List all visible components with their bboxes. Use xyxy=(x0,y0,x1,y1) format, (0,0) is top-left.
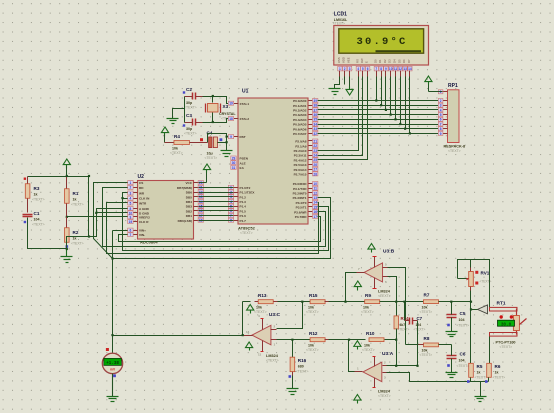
wire RT1 bottom to R6 xyxy=(489,337,491,364)
svg-text:10k: 10k xyxy=(256,306,262,310)
svg-text:<TEXT>: <TEXT> xyxy=(71,242,84,246)
svg-text:+1.38: +1.38 xyxy=(106,362,119,366)
resistor R7 xyxy=(424,300,439,304)
svg-text:D6: D6 xyxy=(402,59,406,63)
svg-text:<TEXT>: <TEXT> xyxy=(420,353,433,357)
svg-text:<TEXT>: <TEXT> xyxy=(361,310,374,314)
svg-text:11: 11 xyxy=(394,67,398,71)
resistor R5 xyxy=(469,363,474,377)
svg-text:U3:B: U3:B xyxy=(383,249,395,255)
svg-text:<TEXT>: <TEXT> xyxy=(170,151,183,155)
svg-text:R3: R3 xyxy=(34,186,40,191)
svg-text:R15: R15 xyxy=(309,293,318,298)
svg-text:DB3: DB3 xyxy=(186,205,192,209)
svg-text:5: 5 xyxy=(362,67,364,71)
svg-text:25: 25 xyxy=(313,158,317,162)
svg-text:PTC-PT100: PTC-PT100 xyxy=(496,341,516,345)
U3:A power stubs xyxy=(374,357,376,367)
svg-text:6: 6 xyxy=(367,67,369,71)
svg-text:<TEXT>: <TEXT> xyxy=(362,348,375,352)
svg-text:30: 30 xyxy=(232,161,236,165)
wire C3 net to XTAL2 xyxy=(203,119,234,123)
svg-text:RST: RST xyxy=(240,135,246,139)
svg-text:DB1: DB1 xyxy=(186,214,192,218)
svg-text:36: 36 xyxy=(313,113,317,117)
wire C7 right down to U3:A - input xyxy=(417,321,419,366)
resistor pack RP1 RESPACK-8 xyxy=(448,90,460,143)
svg-text:10k: 10k xyxy=(363,306,369,310)
ground (crystal) xyxy=(167,118,179,120)
svg-text:16: 16 xyxy=(199,209,203,213)
svg-text:C2: C2 xyxy=(186,87,192,92)
svg-text:<TEXT>: <TEXT> xyxy=(500,345,513,349)
potentiometer RV1 xyxy=(470,260,472,268)
svg-text:19: 19 xyxy=(129,220,133,224)
power terminal (U3:B V-) xyxy=(354,281,361,287)
wire P0 bus rows to RP1 xyxy=(318,100,443,102)
wire LCD RS to U1 P2.2 xyxy=(318,77,359,151)
svg-text:11: 11 xyxy=(258,353,262,357)
svg-text:14: 14 xyxy=(313,201,317,205)
svg-text:104: 104 xyxy=(416,323,422,327)
svg-text:32: 32 xyxy=(313,132,317,136)
svg-text:R1: R1 xyxy=(73,191,79,196)
wire analog net row to P3.3 xyxy=(113,198,331,259)
svg-text:22: 22 xyxy=(313,144,317,148)
resistor R1 xyxy=(66,177,68,189)
resistor R16 xyxy=(292,340,294,358)
svg-text:17: 17 xyxy=(313,215,317,219)
svg-text:LM324: LM324 xyxy=(378,290,391,294)
svg-text:1: 1 xyxy=(339,67,341,71)
svg-text:33: 33 xyxy=(313,127,317,131)
svg-text:P3.2/INT0: P3.2/INT0 xyxy=(293,192,307,196)
resistor R4 xyxy=(165,142,175,144)
capacitor C6 xyxy=(447,355,457,357)
svg-text:P2.4/A12: P2.4/A12 xyxy=(294,158,307,162)
svg-text:P0.1/AD1: P0.1/AD1 xyxy=(293,104,307,108)
svg-text:DB4: DB4 xyxy=(186,200,192,204)
svg-text:3: 3 xyxy=(349,67,351,71)
svg-text:R5: R5 xyxy=(477,364,483,369)
svg-text:LCD1: LCD1 xyxy=(334,12,347,18)
svg-text:DB6: DB6 xyxy=(186,191,192,195)
wire C4 right to RST net xyxy=(218,142,227,144)
voltmeter (DC) xyxy=(102,353,122,373)
svg-text:CRYSTAL: CRYSTAL xyxy=(219,112,236,116)
svg-text:2: 2 xyxy=(440,99,442,103)
wire U3:A output up to R10 row xyxy=(349,340,355,372)
svg-text:14: 14 xyxy=(408,67,412,71)
svg-text:2: 2 xyxy=(130,186,132,190)
svg-text:P3.1/TXD: P3.1/TXD xyxy=(293,187,307,191)
wire RV1 bottom down to R5 xyxy=(470,291,472,364)
svg-text:<TEXT>: <TEXT> xyxy=(457,324,470,328)
svg-text:18: 18 xyxy=(229,117,233,121)
svg-text:D1: D1 xyxy=(378,59,382,63)
wire VIN+ to analog net xyxy=(113,230,128,232)
svg-text:P1.2: P1.2 xyxy=(240,195,247,199)
svg-text:D0: D0 xyxy=(373,59,377,63)
svg-text:1: 1 xyxy=(130,181,132,185)
svg-text:R4: R4 xyxy=(174,134,180,139)
svg-text:VDD: VDD xyxy=(342,57,346,63)
svg-text:24: 24 xyxy=(313,154,317,158)
wire WR wrap to P3.5 xyxy=(123,193,329,251)
svg-text:U1: U1 xyxy=(242,89,249,95)
svg-text:P3.0/RXD: P3.0/RXD xyxy=(293,182,308,186)
U3:B stubs xyxy=(383,267,388,269)
svg-text:DB0(LSB): DB0(LSB) xyxy=(178,219,192,223)
svg-text:4: 4 xyxy=(130,197,132,201)
wire LCD data drops D0-D7 xyxy=(376,77,378,101)
svg-text:P1.4: P1.4 xyxy=(240,205,247,209)
svg-text:<TEXT>: <TEXT> xyxy=(205,156,218,160)
svg-text:R16: R16 xyxy=(298,358,307,363)
wire C2-C3 left leg xyxy=(184,97,186,123)
ground (sensor bottom) xyxy=(475,396,487,398)
svg-text:RS: RS xyxy=(355,59,359,63)
svg-text:6: 6 xyxy=(130,229,132,233)
svg-text:C1: C1 xyxy=(34,211,40,216)
wire row to R9 xyxy=(341,301,365,303)
svg-text:P0.3/AD3: P0.3/AD3 xyxy=(293,113,307,117)
U3:C power stubs xyxy=(262,319,264,330)
wire U3:B + input down to R8 row xyxy=(388,268,406,345)
svg-text:7: 7 xyxy=(440,122,442,126)
svg-text:ALE: ALE xyxy=(240,161,246,165)
svg-text:P2.5/A13: P2.5/A13 xyxy=(294,163,307,167)
svg-text:P0.0/AD0: P0.0/AD0 xyxy=(293,99,307,103)
svg-text:10u: 10u xyxy=(207,152,213,156)
svg-text:P2.1/A9: P2.1/A9 xyxy=(295,144,306,148)
wire RST net loop xyxy=(208,134,227,151)
ground (C6) xyxy=(451,359,453,373)
svg-text:27: 27 xyxy=(313,168,317,172)
svg-text:R12: R12 xyxy=(309,331,318,336)
wire R14 bottom to U3:A - input xyxy=(396,329,398,366)
ADC U2 ADC0804 xyxy=(138,181,194,240)
svg-text:12: 12 xyxy=(313,191,317,195)
svg-text:VSS: VSS xyxy=(337,57,341,63)
wire U2 data bus to U1 P1 (8 wires) xyxy=(199,187,234,189)
svg-text:P3.7/RD: P3.7/RD xyxy=(295,215,307,219)
ground (reset) xyxy=(221,150,233,152)
capacitor C2 xyxy=(192,93,194,100)
svg-text:P2.0/A8: P2.0/A8 xyxy=(295,140,306,144)
svg-text:37: 37 xyxy=(313,108,317,112)
svg-text:8: 8 xyxy=(130,207,132,211)
svg-text:29: 29 xyxy=(232,156,236,160)
resistor R3 xyxy=(27,177,29,184)
svg-text:<TEXT>: <TEXT> xyxy=(414,328,426,332)
resistor R8 xyxy=(424,343,439,347)
svg-text:1: 1 xyxy=(440,90,442,94)
svg-text:<TEXT>: <TEXT> xyxy=(398,328,410,332)
wire U3:A + input to bottom net xyxy=(387,373,489,382)
resistor R14 xyxy=(394,316,398,329)
wire C7 left up to row xyxy=(404,302,406,321)
svg-text:R7: R7 xyxy=(424,293,430,298)
svg-text:R13: R13 xyxy=(258,293,267,298)
wire C1 bottom to ground rail xyxy=(28,218,67,249)
wire R5/R6 bottoms to ground xyxy=(470,378,472,382)
svg-text:8: 8 xyxy=(380,67,382,71)
svg-text:13: 13 xyxy=(199,195,203,199)
power terminal (RP1) xyxy=(425,76,432,82)
svg-text:VREF/2: VREF/2 xyxy=(139,216,150,220)
svg-text:P1.0/T2: P1.0/T2 xyxy=(240,186,251,190)
svg-text:4k7: 4k7 xyxy=(400,323,406,327)
svg-text:104: 104 xyxy=(459,318,465,322)
ground (C5) xyxy=(451,318,453,332)
wire LCD RW to U1 P2.3 xyxy=(318,77,363,156)
svg-text:1k: 1k xyxy=(477,370,481,374)
power terminal (U3:C V-) xyxy=(246,342,253,348)
wire RV1 loop to RT1 top xyxy=(458,260,490,310)
op-amp U3:B LM324 xyxy=(364,263,382,282)
svg-text:12: 12 xyxy=(399,67,403,71)
svg-text:13: 13 xyxy=(403,67,407,71)
svg-text:<TEXT>: <TEXT> xyxy=(266,359,279,363)
svg-text:<TEXT>: <TEXT> xyxy=(475,376,488,380)
resistor R9 xyxy=(365,300,380,304)
svg-text:P2.2/A10: P2.2/A10 xyxy=(294,149,307,153)
svg-text:PSEN: PSEN xyxy=(240,157,249,161)
svg-text:11: 11 xyxy=(314,187,318,191)
svg-text:<TEXT>: <TEXT> xyxy=(457,364,470,368)
wire U3:A - input net xyxy=(387,365,418,367)
U3:C input/output stubs xyxy=(271,329,277,331)
svg-text:<TEXT>: <TEXT> xyxy=(184,106,197,110)
svg-text:P3.6/WR: P3.6/WR xyxy=(294,210,307,214)
svg-text:R2: R2 xyxy=(73,230,79,235)
wire amp output row to voltmeter net xyxy=(113,335,243,337)
svg-text:4: 4 xyxy=(440,108,442,112)
wire R8 to C6 xyxy=(439,344,452,346)
svg-text:2: 2 xyxy=(344,67,346,71)
svg-text:3: 3 xyxy=(130,191,132,195)
capacitor C3 xyxy=(192,119,194,126)
svg-text:39: 39 xyxy=(313,99,317,103)
resistor R13 xyxy=(243,301,251,303)
ground (left column) xyxy=(66,249,68,257)
svg-text:<TEXT>: <TEXT> xyxy=(420,310,433,314)
svg-text:P0.4/AD4: P0.4/AD4 xyxy=(293,118,307,122)
wire U3:C inverting input from R13/R15 junction xyxy=(277,302,303,329)
svg-text:P0.2/AD2: P0.2/AD2 xyxy=(293,109,307,113)
svg-text:D7: D7 xyxy=(407,59,411,63)
svg-text:9: 9 xyxy=(440,132,442,136)
svg-text:38: 38 xyxy=(313,104,317,108)
svg-text:RW: RW xyxy=(360,58,364,63)
svg-text:9: 9 xyxy=(385,67,387,71)
svg-text:R9: R9 xyxy=(365,293,371,298)
power terminal (U3:C V+) xyxy=(247,305,254,311)
svg-text:8: 8 xyxy=(440,127,442,131)
svg-text:<TEXT>: <TEXT> xyxy=(333,22,345,26)
svg-text:EA: EA xyxy=(240,166,245,170)
svg-text:31: 31 xyxy=(232,166,236,170)
svg-text:35: 35 xyxy=(313,118,317,122)
capacitor C5 xyxy=(447,314,457,316)
svg-text:D5: D5 xyxy=(397,59,401,63)
svg-text:R6: R6 xyxy=(495,364,501,369)
svg-text:<TEXT>: <TEXT> xyxy=(184,132,197,136)
svg-text:10: 10 xyxy=(313,182,317,186)
svg-text:CLK IN: CLK IN xyxy=(139,197,150,201)
wire top rail xyxy=(28,176,89,178)
svg-text:10k: 10k xyxy=(172,147,178,151)
svg-text:P2.3/A11: P2.3/A11 xyxy=(294,154,307,158)
svg-text:AT89C52: AT89C52 xyxy=(238,226,256,231)
wire row to R10 xyxy=(341,339,366,341)
svg-text:5: 5 xyxy=(130,201,132,205)
power terminal (U3:B V+) xyxy=(368,244,375,250)
svg-text:15: 15 xyxy=(313,205,317,209)
capacitor C1 xyxy=(23,214,33,216)
capacitor C7 xyxy=(409,318,411,325)
svg-text:C7: C7 xyxy=(417,316,423,321)
svg-text:<TEXT>: <TEXT> xyxy=(32,223,45,227)
svg-text:P1.6: P1.6 xyxy=(240,214,247,218)
svg-text:10k: 10k xyxy=(422,349,428,353)
power terminal (U3:A V-) xyxy=(354,395,361,401)
svg-text:<TEXT>: <TEXT> xyxy=(71,203,84,207)
svg-text:P0.5/AD5: P0.5/AD5 xyxy=(293,123,307,127)
svg-text:<TEXT>: <TEXT> xyxy=(378,294,391,298)
svg-text:P1.7: P1.7 xyxy=(240,219,247,223)
svg-text:3: 3 xyxy=(230,195,232,199)
wire U3:B - input down to R14 xyxy=(388,277,397,316)
ground (R16) xyxy=(287,388,299,390)
svg-text:CS: CS xyxy=(139,181,143,185)
wire crystal bottom to C3 net xyxy=(212,113,214,123)
svg-text:P1.1/T2EX: P1.1/T2EX xyxy=(240,191,256,195)
wire C2 net to XTAL1 xyxy=(203,97,234,104)
svg-text:VCC: VCC xyxy=(185,181,192,185)
svg-text:30.9°C: 30.9°C xyxy=(356,36,407,48)
svg-text:mV: mV xyxy=(110,368,116,372)
svg-text:9: 9 xyxy=(130,215,132,219)
svg-text:WR: WR xyxy=(139,192,145,196)
svg-text:D3: D3 xyxy=(388,59,392,63)
svg-text:<TEXT>: <TEXT> xyxy=(493,376,506,380)
svg-text:D4: D4 xyxy=(393,59,397,63)
ground (LCD VSS) xyxy=(335,77,340,89)
wire VREF/2 to divider xyxy=(67,216,128,218)
svg-text:10k: 10k xyxy=(308,344,314,348)
svg-text:U2: U2 xyxy=(138,174,145,180)
resistor R2 xyxy=(66,217,68,228)
svg-text:U3:A: U3:A xyxy=(382,351,394,357)
svg-text:28: 28 xyxy=(313,172,317,176)
wire C5 top to R7 row xyxy=(451,302,453,315)
svg-text:10k: 10k xyxy=(364,344,370,348)
svg-text:19: 19 xyxy=(229,102,233,106)
svg-text:RV1: RV1 xyxy=(481,271,490,276)
wire crystal top to C2 net xyxy=(212,97,214,103)
capacitor C4 (electrolytic) xyxy=(209,137,212,148)
resistor R10 xyxy=(369,338,384,342)
wire U3:C output to voltmeter net and feedback xyxy=(242,302,244,336)
svg-text:<TEXT>: <TEXT> xyxy=(306,348,319,352)
svg-text:P1.5: P1.5 xyxy=(240,209,247,213)
resistor R15 xyxy=(283,301,311,303)
svg-text:VIN-: VIN- xyxy=(139,233,145,237)
svg-text:7: 7 xyxy=(130,233,132,237)
svg-text:RP1: RP1 xyxy=(448,83,458,89)
svg-text:E: E xyxy=(365,61,369,63)
crystal X3 xyxy=(208,104,219,113)
wire analog net down to voltmeter xyxy=(112,231,114,353)
svg-text:104: 104 xyxy=(459,359,465,363)
power terminal (U2 VCC) xyxy=(203,164,210,170)
wire U3:B output down to row xyxy=(346,273,357,302)
svg-text:VIN+: VIN+ xyxy=(139,229,146,233)
svg-text:XTAL2: XTAL2 xyxy=(240,117,250,121)
power terminal VCC (top-left) xyxy=(63,159,70,165)
svg-text:10k: 10k xyxy=(308,306,314,310)
wire to ground stub xyxy=(173,109,185,119)
microcontroller U1 AT89C52 xyxy=(238,98,308,224)
svg-text:30.0: 30.0 xyxy=(501,322,512,327)
svg-text:P2.7/A15: P2.7/A15 xyxy=(294,173,307,177)
svg-text:10k: 10k xyxy=(422,306,428,310)
svg-text:<TEXT>: <TEXT> xyxy=(378,394,391,398)
svg-text:<TEXT>: <TEXT> xyxy=(254,310,267,314)
wire AGND/DGND to ground rail xyxy=(67,209,128,249)
U3:A stubs xyxy=(383,365,387,367)
svg-text:RD: RD xyxy=(139,186,144,190)
svg-text:A GND: A GND xyxy=(139,207,150,211)
wire RD wrap to P3.6 xyxy=(103,188,326,247)
svg-text:X3: X3 xyxy=(223,104,229,109)
svg-text:<TEXT>: <TEXT> xyxy=(448,149,461,153)
svg-text:6: 6 xyxy=(230,209,232,213)
wire CS to diagonal xyxy=(94,183,128,259)
svg-text:10: 10 xyxy=(389,67,393,71)
svg-text:U3:C: U3:C xyxy=(269,312,281,318)
svg-text:680: 680 xyxy=(298,364,304,368)
svg-text:LM324: LM324 xyxy=(378,390,391,394)
svg-text:RT1: RT1 xyxy=(497,301,506,307)
wire R10 right to R14 node xyxy=(385,339,397,341)
svg-text:C3: C3 xyxy=(186,113,192,118)
svg-text:XTAL1: XTAL1 xyxy=(240,102,250,106)
svg-text:<TEXT>: <TEXT> xyxy=(240,231,253,235)
svg-text:30p: 30p xyxy=(186,101,193,105)
svg-text:P0.6/AD6: P0.6/AD6 xyxy=(293,127,307,131)
svg-text:30p: 30p xyxy=(186,127,193,131)
power terminal (reset) xyxy=(161,127,168,133)
svg-text:C5: C5 xyxy=(460,311,466,316)
LCD pin numbers xyxy=(338,66,342,71)
svg-text:P3.4/T0: P3.4/T0 xyxy=(296,201,307,205)
resistor R12 xyxy=(277,339,311,341)
svg-text:21: 21 xyxy=(313,139,317,143)
svg-text:P2.6/A14: P2.6/A14 xyxy=(294,168,307,172)
wire to RST pin xyxy=(227,136,234,138)
svg-text:23: 23 xyxy=(313,149,317,153)
svg-text:INTR: INTR xyxy=(139,202,147,206)
svg-text:P3.3/INT1: P3.3/INT1 xyxy=(293,196,307,200)
svg-text:16: 16 xyxy=(313,210,317,214)
svg-text:4: 4 xyxy=(357,67,359,71)
svg-text:DB2: DB2 xyxy=(186,209,192,213)
svg-text:7: 7 xyxy=(375,67,377,71)
svg-text:C6: C6 xyxy=(460,352,466,357)
